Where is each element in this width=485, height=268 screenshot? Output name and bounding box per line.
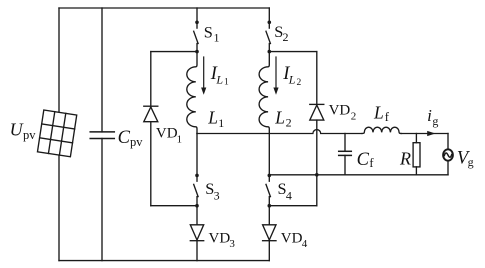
source Vg <box>447 134 449 150</box>
wire S3 to VD3 <box>196 206 198 225</box>
svg-text:1: 1 <box>177 134 183 146</box>
svg-text:2: 2 <box>351 111 357 123</box>
capacitor C_pv wires <box>101 8 103 132</box>
svg-text:L: L <box>207 107 218 127</box>
junction dot VD2/return rail <box>315 173 319 177</box>
wire S1 bottom to VD1 top <box>151 51 197 53</box>
svg-text:4: 4 <box>286 189 292 203</box>
svg-text:f: f <box>369 156 374 170</box>
diode VD1 <box>150 52 152 107</box>
wire VD2 bottom to S4 bottom <box>269 205 317 207</box>
wire L2 junction to S4 <box>268 134 270 176</box>
svg-text:2: 2 <box>283 30 289 44</box>
arrow I_L2 <box>275 57 277 89</box>
wire return rail <box>269 174 448 176</box>
svg-text:g: g <box>432 114 438 128</box>
switch S3 <box>195 174 199 178</box>
svg-text:C: C <box>357 150 370 170</box>
svg-text:3: 3 <box>229 238 235 250</box>
wire S4 to VD4 <box>268 206 270 225</box>
arrow I_L1 <box>203 57 205 89</box>
capacitor C_pv plates <box>90 131 114 133</box>
diode VD3 <box>190 225 203 240</box>
svg-text:S: S <box>204 22 213 41</box>
diode VD2 <box>316 52 318 105</box>
svg-text:pv: pv <box>23 128 36 142</box>
svg-text:3: 3 <box>214 189 220 203</box>
wire VD1 bottom to S3 bottom <box>151 205 197 207</box>
svg-text:2: 2 <box>297 78 302 88</box>
switch S2 <box>268 8 270 28</box>
svg-text:pv: pv <box>130 135 143 149</box>
svg-text:L: L <box>215 72 223 86</box>
inductor Lf <box>362 127 401 133</box>
wire top rail <box>59 7 269 9</box>
svg-text:VD: VD <box>329 103 351 119</box>
capacitor C_f <box>344 134 346 152</box>
wire mid rail right of Lf <box>401 133 448 135</box>
svg-text:i: i <box>427 106 432 125</box>
svg-text:f: f <box>385 110 390 124</box>
svg-text:VD: VD <box>156 126 178 142</box>
svg-text:L: L <box>373 102 384 122</box>
svg-text:4: 4 <box>302 238 308 250</box>
wire left rail <box>58 8 60 261</box>
diode VD4 <box>263 225 276 240</box>
svg-text:1: 1 <box>218 116 224 130</box>
svg-text:L: L <box>274 107 285 127</box>
svg-text:U: U <box>10 119 24 139</box>
svg-text:1: 1 <box>224 77 229 87</box>
svg-text:2: 2 <box>286 115 292 129</box>
inductor L2 <box>259 52 269 134</box>
svg-text:L: L <box>288 72 296 86</box>
switch S4 <box>268 174 272 178</box>
wire bottom rail <box>59 260 269 262</box>
arrow i_g <box>427 131 435 136</box>
svg-text:R: R <box>399 148 411 168</box>
switch S1 <box>196 8 198 28</box>
svg-text:VD: VD <box>209 231 231 247</box>
wire mid rail with hop over VD2 <box>197 130 362 134</box>
svg-text:VD: VD <box>281 231 303 247</box>
svg-text:g: g <box>468 155 474 169</box>
PV panel U_pv <box>37 110 76 157</box>
wire L1 junction to S3 <box>196 134 198 176</box>
wire S2 bottom to VD2 top <box>269 51 317 53</box>
svg-text:C: C <box>118 128 131 148</box>
inductor L1 <box>187 52 197 134</box>
resistor R <box>415 134 417 143</box>
svg-text:1: 1 <box>214 30 220 44</box>
